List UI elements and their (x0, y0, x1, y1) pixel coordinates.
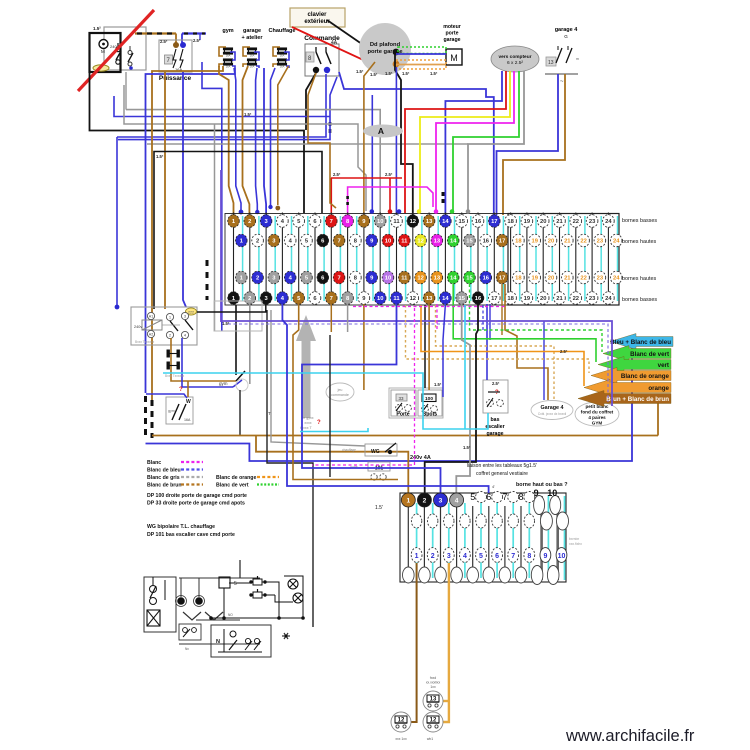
terminal bornes basses top 8 (342, 215, 354, 228)
Porte contact b (405, 405, 412, 412)
terminal bornes basses bottom 5 (293, 292, 305, 305)
terminal bornes basses bottom 12 (407, 292, 419, 305)
orange hatched cable to motor (396, 60, 446, 69)
junction (102, 43, 105, 46)
mini1 contact a (150, 586, 157, 593)
blue wire Puissance to contactor (183, 72, 186, 307)
terminal bornes basses bottom 18 (505, 292, 517, 305)
contact circle 4 (128, 62, 132, 66)
blue wire end dot row2-2 (255, 210, 259, 214)
brown exit fuse (273, 64, 277, 67)
lower strip terminal 10 top (550, 496, 561, 515)
svg-text:Blanc de brun: Blanc de brun (147, 483, 182, 489)
terminal bornes basses top 18 (505, 215, 517, 228)
WG box mid (365, 444, 397, 456)
svg-text:vert: vert (658, 362, 669, 369)
svg-text:10: 10 (377, 219, 383, 225)
lower strip terminal 10 number (556, 548, 567, 563)
svg-text:xxxx: xxxx (304, 421, 311, 425)
contactor blade 1 (170, 321, 178, 331)
terminal bornes basses bottom 24 (603, 292, 615, 305)
svg-text:22: 22 (573, 296, 579, 302)
wire (224, 49, 226, 53)
wire (255, 60, 257, 64)
terminal bornes hautes top 10 (382, 234, 394, 247)
svg-text:?: ? (495, 390, 499, 396)
blue vertical left (116, 137, 118, 306)
brown wire Puissance to contactor (164, 72, 166, 309)
svg-text:24: 24 (605, 219, 612, 225)
terminal bornes hautes top 18 (513, 234, 525, 247)
svg-text:1.5²: 1.5² (93, 26, 101, 31)
blue wire end dot chauffage (268, 205, 272, 209)
svg-text:240v 4A: 240v 4A (410, 455, 431, 461)
mini1 wire right (164, 580, 166, 600)
switch symbol 12 right (423, 712, 443, 732)
svg-text:5: 5 (479, 553, 483, 560)
switch symbol 13 (423, 691, 443, 711)
svg-text:10: 10 (547, 488, 557, 498)
lower strip terminal 1 top (401, 493, 415, 507)
terminal bornes basses bottom 3 (260, 292, 272, 305)
mini1 lamp diag b (147, 610, 160, 626)
ellipse petit blanc (575, 402, 619, 426)
junction (285, 635, 288, 638)
svg-text:1.5²: 1.5² (463, 445, 471, 450)
svg-text:garage: garage (486, 431, 503, 437)
svg-text:18: 18 (515, 239, 522, 245)
svg-text:14: 14 (450, 239, 457, 245)
mini3 blade c (254, 641, 261, 650)
dashed purple wire (228, 324, 608, 402)
svg-text:17: 17 (499, 239, 505, 245)
terminal bornes basses bottom 13 (423, 292, 435, 305)
svg-text:1.5': 1.5' (375, 505, 383, 511)
WG blade 2 (179, 404, 186, 420)
brown wire chauffage down (278, 66, 289, 205)
label 7 box (165, 55, 173, 64)
svg-text:2: 2 (169, 334, 171, 338)
brown wire garage4 to terminal 17 (503, 74, 565, 215)
wire (262, 594, 266, 596)
svg-text:Bxxx Txxxxxx: Bxxx Txxxxxx (165, 374, 185, 378)
brown wire to lower strip 1 (256, 436, 408, 495)
black wire clavier to door opener (327, 20, 393, 52)
blue wire to Garage 4 (543, 321, 545, 400)
brown wire long run bottom (152, 435, 658, 437)
blue wire run 116 (114, 96, 330, 117)
terminal bornes basses top 15 (456, 215, 468, 228)
terminal bornes hautes bottom 10 (382, 271, 394, 284)
svg-text:7: 7 (502, 492, 507, 502)
blue exit fuse (256, 66, 259, 68)
mini3 contact top (230, 631, 236, 637)
blue wire row4-14 down (443, 304, 445, 397)
svg-text:222: 222 (188, 311, 194, 315)
svg-text:Blanc: Blanc (147, 460, 161, 466)
push button 2 stem (257, 589, 259, 592)
svg-text:Blanc de orange: Blanc de orange (216, 475, 256, 481)
svg-text:16A: 16A (226, 65, 231, 69)
dashed tan wire to Garage 4 (436, 305, 555, 401)
svg-text:Blanc de vert: Blanc de vert (630, 351, 669, 358)
light orange branch to lamp 13 (443, 700, 449, 702)
terminal bornes hautes bottom 14 (447, 271, 459, 284)
terminal bornes hautes bottom 7 (333, 271, 345, 284)
blue wire end dot row2-1 (239, 210, 244, 215)
terminal bornes hautes bottom 4 (284, 271, 296, 284)
terminal bornes hautes top 2 (252, 234, 264, 247)
bas escalier blade (487, 398, 493, 407)
terminal bornes hautes top 13 (431, 234, 443, 247)
blue drop to Puissance (181, 34, 183, 47)
lower strip terminal 3 middle (444, 514, 454, 528)
Spots blade (422, 404, 428, 412)
lower strip terminal 1 middle (411, 514, 421, 528)
svg-text:5: 5 (234, 581, 237, 587)
svg-text:11: 11 (393, 296, 400, 302)
tan core of orange cable (396, 64, 446, 66)
blue wire commande run B (118, 77, 337, 140)
cable mark dashes (329, 122, 332, 133)
terminal bornes hautes top 21 (562, 234, 574, 247)
terminal bornes hautes bottom 9 (366, 271, 378, 284)
terminal bornes hautes top 20 (545, 234, 557, 247)
terminal bornes hautes top 12 (415, 234, 427, 247)
terminal bornes hautes top 6 (317, 234, 329, 247)
meter enclosure box (104, 27, 146, 70)
WG blade 1 (172, 404, 179, 420)
svg-text:7: 7 (337, 276, 340, 282)
svg-text:2: 2 (256, 239, 259, 245)
svg-text:extérieur: extérieur (304, 19, 330, 25)
svg-text:wb1: wb1 (427, 737, 433, 741)
svg-text:gym: gym (168, 409, 175, 413)
svg-text:17: 17 (499, 276, 505, 282)
svg-text:16A: 16A (250, 54, 255, 58)
terminal bornes hautes top 8 (350, 234, 362, 247)
terminal bornes basses top 17 (489, 215, 501, 228)
blue terminal dot Puissance (180, 42, 186, 48)
wire end dot (417, 209, 422, 214)
legend swatch Blanc de brun (181, 483, 203, 485)
bar under garage4 switch (545, 73, 578, 75)
svg-text:8: 8 (518, 492, 523, 502)
meter black box (90, 33, 121, 72)
switch stub 1 (315, 47, 317, 52)
blue wire commande run A (117, 74, 326, 137)
svg-text:14: 14 (442, 296, 449, 302)
svg-text:16: 16 (483, 239, 490, 245)
terminal bornes hautes top 4 (284, 234, 296, 247)
svg-text:1.5²: 1.5² (402, 71, 410, 76)
101 contact b (380, 474, 386, 480)
svg-text:6: 6 (495, 553, 499, 560)
lower strip terminal 1 number (411, 548, 422, 563)
mini3 blade b (245, 641, 252, 650)
stub a (557, 46, 559, 50)
terminal bornes hautes bottom 6 (317, 271, 329, 284)
mini2 lamp arc b (205, 612, 223, 620)
svg-text:21: 21 (564, 276, 571, 282)
terminal bornes basses bottom 11 (391, 292, 403, 305)
brown cable gym down-left (152, 66, 223, 401)
fuse element b (177, 362, 179, 369)
legend swatch orange (257, 476, 279, 478)
mini2 node a (177, 597, 185, 605)
terminal bornes hautes top 17 (496, 234, 508, 247)
svg-text:2.5²: 2.5² (160, 39, 168, 44)
yellow tag (93, 65, 109, 71)
svg-text:17: 17 (491, 296, 497, 302)
svg-text:bornes basses: bornes basses (622, 218, 657, 224)
svg-text:jeu: jeu (337, 388, 343, 392)
Porte box (391, 390, 416, 416)
blue wire chauffage down (271, 68, 276, 205)
brown drop into WG (187, 381, 189, 397)
push button 2 (253, 592, 262, 598)
switch blade 2 (128, 53, 133, 62)
svg-text:15: 15 (466, 239, 473, 245)
lower strip terminal 5 number (476, 548, 487, 563)
svg-text:10: 10 (377, 296, 383, 302)
blue wire garage4 to terminal 17 (497, 74, 559, 215)
legend swatch Blanc (181, 461, 203, 463)
black wire gym switch down (239, 390, 241, 436)
terminal strip right solid box (508, 214, 619, 306)
terminal strip 1 column link wires (233, 213, 235, 305)
faint circle gym switch (236, 379, 248, 391)
svg-text:12: 12 (410, 296, 416, 302)
contact circle 3 (128, 51, 132, 55)
red bracket drop left (330, 178, 332, 215)
Porte blade (396, 403, 402, 411)
terminal bornes basses top 16 (472, 215, 484, 228)
svg-text:bas: bas (491, 417, 500, 423)
svg-text:13: 13 (434, 239, 441, 245)
svg-text:7: 7 (511, 553, 515, 560)
mini4 wire d (284, 576, 303, 618)
contact stub (117, 43, 119, 48)
blue loop fuse (284, 52, 289, 60)
svg-text:fxxd: fxxd (430, 676, 436, 680)
svg-text:21: 21 (564, 239, 571, 245)
lamp cross 1 (288, 579, 298, 589)
terminal bornes basses top 1 (228, 215, 240, 228)
svg-text:9: 9 (543, 553, 547, 560)
grey wire compteur (468, 71, 524, 213)
red wire compteur (405, 71, 506, 213)
terminal bornes hautes bottom 19 (529, 271, 541, 284)
svg-text:WG bipolaire T.L. chauffage: WG bipolaire T.L. chauffage (147, 524, 215, 530)
switch symbol 12 left (391, 712, 411, 732)
terminal bornes hautes top 11 (399, 234, 411, 247)
blue exit fuse (232, 66, 235, 68)
wire (248, 60, 250, 64)
blue loop fuse (254, 52, 259, 60)
lower strip terminal 5 middle (476, 514, 486, 528)
svg-text:21: 21 (556, 219, 563, 225)
mini2 lamp arc a (183, 612, 201, 620)
legend swatch vert (257, 483, 279, 485)
svg-text:Chauffage: Chauffage (269, 28, 296, 34)
outer box Porte Spots (389, 388, 443, 418)
junction (249, 593, 252, 596)
coil diagonal (142, 320, 162, 330)
svg-text:16A: 16A (226, 54, 231, 58)
terminal bornes basses bottom 20 (537, 292, 549, 305)
arrow blanc de orange (591, 368, 671, 384)
ellipse vers compteur (491, 46, 539, 72)
svg-text:23: 23 (589, 296, 596, 302)
wire (231, 60, 233, 64)
lower strip terminal 3 bottom (435, 567, 447, 583)
legend swatch Blanc de bleu (181, 468, 203, 470)
svg-text:2: 2 (423, 498, 427, 505)
arrow blanc de vert (603, 346, 671, 362)
lower strip terminal 6 number (492, 548, 503, 563)
dashed magenta stub (436, 304, 438, 330)
svg-text:GYM: GYM (592, 421, 603, 426)
junction (249, 580, 252, 583)
terminal bornes hautes top 15 (464, 234, 476, 247)
mini2 lower wire (179, 643, 260, 645)
svg-text:+ atelier: + atelier (242, 35, 264, 41)
brown wire door to terminal 9 (364, 62, 375, 215)
black dash marks on brown cable (151, 400, 154, 438)
svg-text:23: 23 (597, 239, 604, 245)
contact stub 2 (129, 46, 131, 51)
svg-text:orange: orange (648, 385, 669, 392)
svg-text:DP 33 droite porte de garage: DP 33 droite porte de garage cmd apots (147, 501, 245, 507)
lower strip terminal 10 middle (557, 512, 569, 530)
mini4 wire a (229, 582, 250, 584)
svg-text:18: 18 (507, 219, 514, 225)
arrow bleu blanc de bleu (610, 334, 673, 350)
black dash marks on blue cable (144, 396, 147, 440)
mini4 drop (223, 588, 225, 618)
mini3 bottom wire (218, 651, 262, 653)
svg-text:G: G (564, 34, 568, 39)
blue stub below 17 (489, 304, 491, 340)
svg-text:11: 11 (401, 276, 408, 282)
svg-text:240v: 240v (134, 325, 142, 329)
terminal bornes basses top 14 (440, 215, 452, 228)
lamp cross 2 (293, 593, 303, 603)
cyan wire below strip (464, 305, 466, 429)
blue terminal dot (129, 66, 133, 70)
black dash marks on brown cable (137, 32, 174, 34)
motor box M (446, 49, 462, 65)
purple wire to petit blanc (222, 321, 612, 406)
svg-text:2: 2 (256, 276, 259, 282)
terminal bornes basses bottom 22 (570, 292, 582, 305)
svg-text:M: M (450, 53, 458, 63)
Spots contact b (431, 406, 438, 413)
svg-text:13: 13 (548, 60, 554, 66)
svg-text:22: 22 (573, 219, 579, 225)
terminal bornes basses bottom 23 (586, 292, 598, 305)
svg-text:19: 19 (531, 239, 538, 245)
blue wire row4-11 to lower strip 3 (302, 304, 441, 494)
svg-text:chauffage: chauffage (342, 448, 356, 452)
svg-text:2: 2 (248, 219, 251, 225)
svg-text:Garage 4: Garage 4 (540, 405, 563, 411)
black node door (393, 49, 400, 56)
wire (250, 594, 253, 596)
switch blade (116, 51, 121, 60)
grey zone box (214, 301, 262, 331)
terminal bornes basses bottom 10 (374, 292, 386, 305)
Commande switch box (305, 44, 339, 76)
black wire vertical 330 (329, 335, 331, 477)
mini2 ring b (194, 596, 205, 607)
svg-text:Blanc de bleu: Blanc de bleu (147, 468, 181, 474)
blue wire mid to terminal (371, 95, 373, 213)
mini2 node b (195, 597, 203, 605)
WG breaker box left (166, 397, 193, 424)
contactor coil (142, 320, 162, 330)
terminal bornes basses bottom 14 (440, 292, 452, 305)
grey wire T run to WG (271, 310, 365, 446)
black stub into schematic (239, 560, 241, 578)
blue wire contactor to gym switch (182, 338, 233, 387)
svg-text:Blanc de gris: Blanc de gris (147, 475, 180, 481)
grey wire long vertical 214 (214, 124, 216, 331)
svg-text:1.5²: 1.5² (356, 69, 364, 74)
svg-text:www.archifacile.fr: www.archifacile.fr (565, 727, 695, 745)
mini2 sub contact b (192, 628, 197, 633)
svg-text:Spots: Spots (423, 412, 438, 418)
blue stub (199, 34, 201, 41)
terminal bornes hautes bottom 2 (252, 271, 264, 284)
contactor terminal A1 (147, 312, 154, 319)
svg-text:?: ? (179, 387, 183, 393)
svg-text:1: 1 (169, 316, 171, 320)
switch stub 2 (325, 47, 327, 52)
svg-text:2.5²: 2.5² (333, 172, 341, 177)
svg-text:Porte: Porte (396, 412, 409, 418)
svg-text:bxrnixr: bxrnixr (569, 537, 580, 541)
contactor terminal 2 (166, 331, 173, 338)
svg-text:gym: gym (222, 28, 233, 34)
svg-text:13: 13 (426, 219, 433, 225)
lower strip terminal 8 middle (524, 514, 534, 528)
Spots contact a (422, 406, 429, 413)
contactor terminal A2 (147, 330, 154, 337)
wire (255, 49, 257, 53)
brown wire commande area down (308, 95, 336, 208)
Porte contact a (396, 405, 403, 412)
big grey arrow (296, 315, 316, 418)
svg-text:16A: 16A (184, 418, 191, 422)
grey stub row4-8 (347, 304, 349, 332)
svg-text:16: 16 (475, 296, 482, 302)
grey wire to lower strip 4 (456, 304, 470, 494)
lower strip terminal 9 middle (540, 512, 552, 530)
lower strip terminal 1 bottom (403, 567, 415, 583)
contactor terminal 1 (166, 313, 173, 320)
svg-text:NO: NO (228, 613, 233, 617)
black wire meter loop (90, 72, 305, 213)
svg-text:21: 21 (556, 296, 563, 302)
svg-text:Blanc de vert: Blanc de vert (216, 483, 249, 489)
black wire to Spots (424, 305, 426, 388)
terminal bornes basses top 11 (391, 215, 403, 228)
fuse element b (177, 350, 179, 357)
grey wire run 124 to terminal 9 (124, 85, 366, 211)
magenta bracket wire (348, 187, 433, 215)
